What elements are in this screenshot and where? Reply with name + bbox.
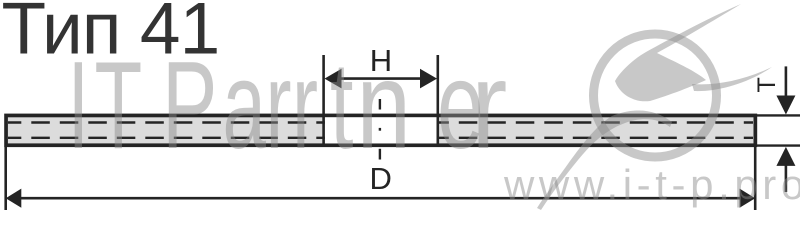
T dimension line lower	[785, 160, 788, 192]
center line lower dash	[379, 149, 381, 160]
T extension line top	[757, 114, 800, 116]
wheel body (disc cross-section bar)	[6, 115, 755, 145]
logo ring	[594, 34, 717, 157]
H dimension line	[330, 77, 432, 80]
D arrow right	[740, 189, 756, 208]
svg-text:www.i-t-p.pro: www.i-t-p.pro	[503, 161, 800, 208]
bore hole (white gap)	[325, 117, 437, 143]
svg-text:T: T	[95, 36, 143, 175]
center dot	[379, 128, 381, 131]
svg-text:P: P	[162, 36, 217, 175]
center line (dash-dot)	[379, 99, 381, 110]
logo tail streamer	[537, 110, 672, 210]
svg-text:a: a	[223, 36, 267, 175]
svg-text:t: t	[330, 37, 353, 175]
D arrow left	[6, 189, 22, 208]
D extension line left	[4, 147, 7, 210]
watermark layer	[68, 4, 800, 210]
T extension line bottom	[757, 144, 800, 146]
dash row 1	[8, 121, 753, 123]
D dimension line	[18, 197, 742, 200]
logo swoosh body with tail	[615, 4, 741, 101]
D extension line right	[754, 147, 757, 210]
svg-text:r: r	[266, 36, 292, 175]
svg-text:n: n	[357, 36, 411, 175]
svg-text:r: r	[292, 36, 318, 175]
T arrow up	[776, 147, 795, 166]
svg-text:r: r	[471, 35, 507, 174]
T dimension line upper	[785, 66, 788, 100]
logo wing right	[692, 67, 772, 91]
hole left edge / H extension line	[322, 55, 325, 144]
T arrow down	[776, 96, 795, 115]
dash row 2	[8, 137, 753, 139]
svg-text:I: I	[68, 36, 90, 175]
svg-text:T: T	[753, 77, 781, 92]
H arrow right	[420, 69, 437, 89]
hole right edge / H extension line	[436, 55, 439, 144]
H arrow left	[325, 69, 342, 89]
